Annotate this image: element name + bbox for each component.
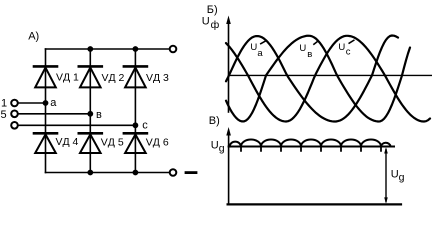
node a junction — [43, 100, 49, 106]
axis bottom graph V — [228, 203, 401, 205]
svg-text:VД 1: VД 1 — [56, 72, 79, 84]
node v junction — [87, 111, 93, 117]
terminal input 1 — [11, 100, 18, 107]
svg-text:с: с — [346, 47, 351, 58]
leader tick Uv — [314, 41, 318, 44]
svg-text:U: U — [299, 43, 306, 54]
wire bottom rail — [46, 172, 174, 174]
svg-text:5: 5 — [1, 109, 7, 121]
svg-text:U: U — [202, 16, 210, 28]
svg-text:1: 1 — [1, 97, 7, 109]
axis vertical graph B — [228, 22, 230, 112]
wire phase input 3 — [18, 124, 135, 126]
svg-text:Б): Б) — [207, 4, 218, 16]
diode VD4 — [34, 133, 57, 153]
minus sign — [186, 171, 196, 174]
junction bottom rail col2 — [87, 170, 93, 176]
wire phase input 2 — [18, 113, 90, 115]
svg-text:U: U — [338, 42, 345, 53]
svg-text:в: в — [96, 109, 102, 121]
terminal input 2 — [11, 111, 18, 118]
svg-text:В): В) — [209, 115, 220, 127]
wire phase input 1 — [18, 102, 46, 104]
dc level line — [229, 146, 394, 148]
dimension arrow Ug — [384, 147, 388, 203]
svg-text:U: U — [211, 139, 219, 151]
diode VD6 — [124, 133, 147, 153]
waveform Uv — [226, 36, 410, 122]
leader tick Ua — [261, 41, 267, 44]
wire column 3 — [134, 49, 136, 173]
svg-text:VД 6: VД 6 — [146, 136, 169, 148]
terminal input 3 — [11, 122, 18, 129]
diode VD1 — [34, 66, 57, 87]
svg-text:VД 3: VД 3 — [146, 72, 169, 84]
diode VD2 — [79, 66, 102, 87]
svg-text:a: a — [50, 97, 57, 109]
svg-text:g: g — [219, 143, 225, 155]
axis vertical graph V — [228, 133, 230, 204]
waveform Ua — [226, 36, 398, 122]
junction top rail col2 — [87, 46, 93, 52]
junction bottom rail col3 — [133, 170, 139, 176]
svg-text:в: в — [307, 49, 312, 60]
terminal output minus — [170, 169, 177, 176]
diode VD3 — [124, 66, 147, 87]
node c junction — [133, 122, 139, 128]
svg-text:VД 5: VД 5 — [101, 136, 124, 148]
svg-text:U: U — [250, 42, 257, 53]
svg-text:А): А) — [28, 31, 39, 43]
svg-text:с: с — [142, 119, 148, 131]
svg-text:g: g — [399, 172, 405, 184]
junction top rail col3 — [133, 46, 139, 52]
svg-text:VД 4: VД 4 — [56, 136, 79, 148]
ripple junction ticks — [241, 147, 381, 151]
svg-text:a: a — [257, 48, 263, 59]
leader tick Uc — [349, 40, 354, 43]
wire column 2 — [89, 49, 91, 173]
axis zero line graph B — [229, 74, 432, 76]
wire column 1 — [45, 49, 47, 173]
svg-text:VД 2: VД 2 — [102, 72, 125, 84]
terminal output plus — [170, 46, 177, 53]
ripple scallops — [230, 140, 391, 147]
svg-text:U: U — [391, 169, 399, 181]
diode VD5 — [79, 133, 102, 153]
svg-text:ф: ф — [211, 19, 220, 31]
wire top rail — [46, 48, 174, 50]
waveform Uc — [226, 36, 430, 122]
